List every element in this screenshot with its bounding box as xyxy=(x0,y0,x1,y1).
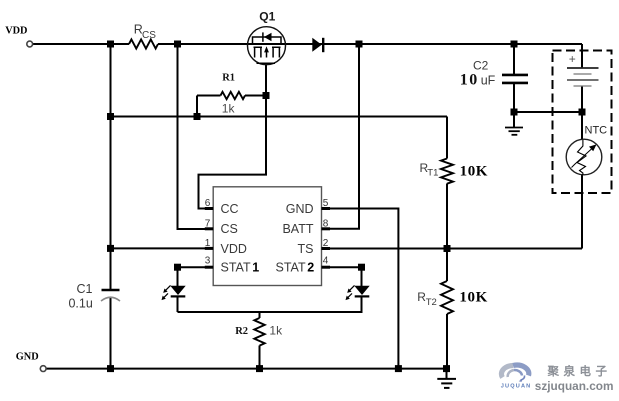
svg-text:0.1u: 0.1u xyxy=(68,297,92,311)
svg-text:GND: GND xyxy=(286,202,314,216)
svg-text:CS: CS xyxy=(142,30,156,41)
svg-text:1: 1 xyxy=(252,261,259,275)
svg-text:C1: C1 xyxy=(77,282,93,296)
svg-text:NTC: NTC xyxy=(585,125,608,137)
svg-text:4: 4 xyxy=(323,256,329,267)
svg-text:10K: 10K xyxy=(459,290,487,306)
svg-text:VDD: VDD xyxy=(221,242,247,256)
svg-text:1k: 1k xyxy=(222,102,236,116)
svg-text:VDD: VDD xyxy=(5,26,27,37)
svg-text:Q1: Q1 xyxy=(259,10,275,24)
svg-text:CC: CC xyxy=(221,202,239,216)
svg-text:2: 2 xyxy=(307,261,314,275)
svg-text:CS: CS xyxy=(221,222,238,236)
svg-text:10: 10 xyxy=(460,72,479,89)
svg-text:7: 7 xyxy=(205,219,211,230)
svg-text:+: + xyxy=(569,52,576,66)
svg-text:3: 3 xyxy=(205,256,211,267)
svg-text:T1: T1 xyxy=(427,168,438,179)
svg-text:TS: TS xyxy=(298,242,314,256)
svg-text:R1: R1 xyxy=(222,72,235,83)
svg-text:8: 8 xyxy=(323,219,329,230)
svg-text:2: 2 xyxy=(323,238,329,249)
svg-text:R2: R2 xyxy=(235,326,248,337)
svg-text:C2: C2 xyxy=(473,58,489,72)
svg-text:聚泉电子: 聚泉电子 xyxy=(547,364,612,378)
svg-text:STAT: STAT xyxy=(221,261,251,275)
svg-text:BATT: BATT xyxy=(282,222,313,236)
svg-text:JUQUAN: JUQUAN xyxy=(501,384,532,390)
svg-text:T2: T2 xyxy=(426,297,437,308)
svg-text:5: 5 xyxy=(323,198,329,209)
svg-text:GND: GND xyxy=(16,351,39,362)
svg-text:szjuquan.com: szjuquan.com xyxy=(535,379,614,393)
svg-text:uF: uF xyxy=(481,74,496,88)
svg-text:6: 6 xyxy=(205,198,211,209)
svg-text:1: 1 xyxy=(205,238,211,249)
svg-text:10K: 10K xyxy=(460,164,488,180)
svg-text:1k: 1k xyxy=(269,323,283,337)
svg-text:STAT: STAT xyxy=(276,261,306,275)
